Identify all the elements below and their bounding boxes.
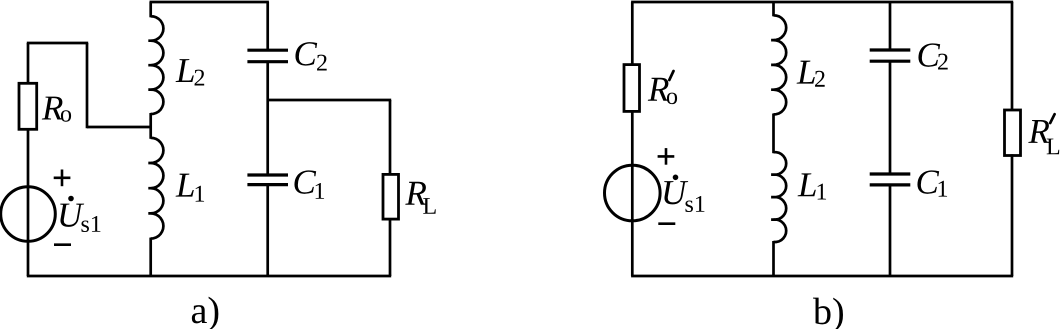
wire: bottom wire a <box>27 275 391 278</box>
capacitor C1 (b) <box>870 172 911 175</box>
label b) <box>813 298 843 329</box>
wire: coil bottom stub b <box>772 241 775 276</box>
capacitor C2 (b) <box>870 48 911 51</box>
label L2 (a) <box>176 59 194 82</box>
wire: left branch below Ro' b <box>631 110 634 276</box>
wire: step horizontal a to L1-L2 junction <box>87 126 151 129</box>
wire: RL top lead <box>389 100 392 176</box>
wire: cap branch mid a <box>266 62 269 175</box>
label Us1 (b) <box>664 181 688 204</box>
wire: cap branch bottom a <box>266 185 269 276</box>
polarity + (a) <box>54 177 71 180</box>
wire: coil mid stub b <box>772 114 775 154</box>
wire: coil bottom stub a <box>149 238 152 276</box>
inductor L1 (a) <box>148 138 163 239</box>
wire: RL' top lead <box>1011 2 1014 111</box>
label C1 (b) <box>917 170 939 193</box>
label C1 (a) <box>294 170 316 193</box>
label L1 (a) <box>176 174 194 197</box>
polarity - (a) <box>54 243 71 246</box>
label Ro' <box>648 78 669 101</box>
label C2 (b) <box>918 43 940 66</box>
inductor L1 (b) <box>771 152 786 242</box>
wire: coil top stub b <box>772 2 775 16</box>
wire: bottom wire b <box>631 275 1013 278</box>
wire: coil mid stub a <box>149 113 152 139</box>
label Us1 (a) <box>60 204 84 227</box>
wire: RL' bottom lead <box>1011 154 1014 276</box>
label RL' <box>1028 120 1049 143</box>
wire: cap branch mid b <box>889 61 892 174</box>
wire: Ro' top lead b <box>631 2 634 66</box>
wire: RL bottom lead <box>389 218 392 276</box>
wire: cap branch bottom b <box>889 185 892 276</box>
capacitor C1 (a) <box>247 173 288 176</box>
voltage source Us1 (b) <box>605 165 661 221</box>
wire: top wire b <box>631 1 1013 4</box>
voltage source Us1 (a) <box>1 187 56 242</box>
label RL <box>405 182 426 205</box>
wire: step vertical a <box>86 43 89 128</box>
resistor Ro <box>19 83 37 129</box>
polarity + (b) <box>658 155 675 158</box>
label C2 (a) <box>295 42 317 65</box>
dot over U (b) <box>673 175 679 181</box>
wire: cap branch top a <box>266 2 269 50</box>
wire: Ro top lead a <box>27 43 30 85</box>
wire: left branch below Ro a <box>27 128 30 276</box>
wire: coil top stub a <box>149 2 152 17</box>
wire: top wire a <box>150 1 269 4</box>
resistor Ro' <box>624 65 640 112</box>
resistor RL <box>383 174 399 219</box>
label L2 (b) <box>797 61 815 84</box>
label a) <box>192 297 219 329</box>
inductor L2 (b) <box>771 15 786 114</box>
capacitor C2 (a) <box>247 49 288 52</box>
label L1 (b) <box>798 173 816 196</box>
polarity - (b) <box>658 222 675 225</box>
wire: middle horizontal to RL <box>268 99 392 102</box>
label Ro <box>42 97 63 120</box>
resistor RL' <box>1005 110 1021 156</box>
wire: cap branch top b <box>889 2 892 50</box>
dot over U (a) <box>68 196 74 202</box>
wire: top-left horizontal a <box>27 42 88 45</box>
inductor L2 (a) <box>148 16 163 114</box>
